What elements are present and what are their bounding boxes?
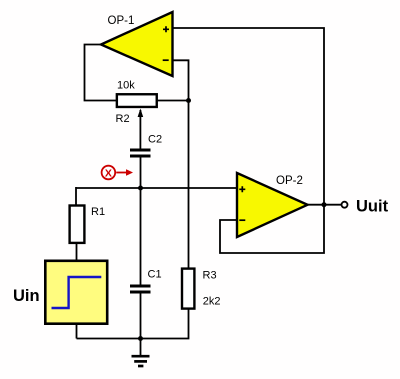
svg-text:OP-1: OP-1 (108, 15, 135, 27)
svg-text:C1: C1 (148, 269, 162, 281)
svg-text:R2: R2 (116, 113, 130, 125)
svg-text:X: X (105, 167, 112, 179)
svg-text:10k: 10k (117, 80, 135, 92)
svg-text:2k2: 2k2 (203, 296, 221, 308)
svg-text:OP-2: OP-2 (276, 175, 303, 187)
svg-text:R1: R1 (91, 206, 105, 218)
svg-text:Uuit: Uuit (356, 197, 389, 215)
svg-text:R3: R3 (203, 270, 217, 282)
svg-text:C2: C2 (148, 134, 162, 146)
svg-text:Uin: Uin (13, 287, 40, 305)
